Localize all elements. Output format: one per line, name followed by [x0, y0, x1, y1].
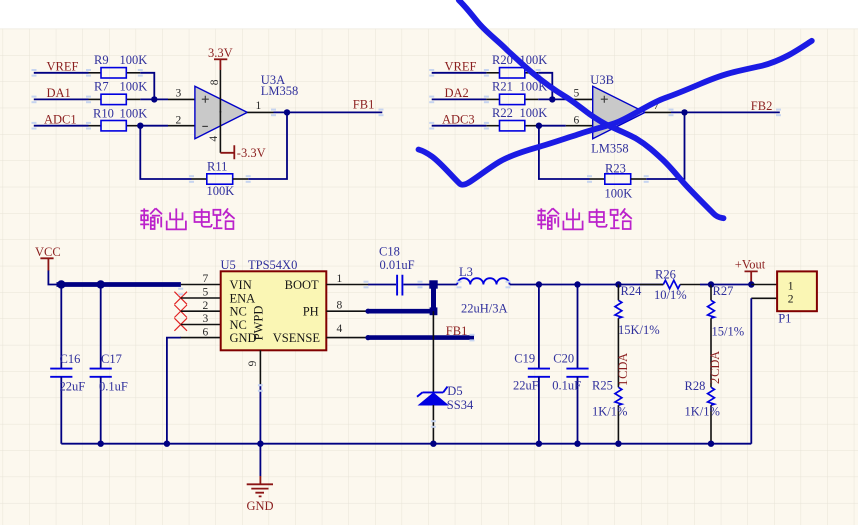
capacitor C16 — [50, 285, 85, 444]
svg-text:R10: R10 — [93, 107, 114, 121]
svg-text:P1: P1 — [778, 312, 791, 326]
junction C19 top — [536, 281, 542, 287]
svg-text:22uF: 22uF — [513, 379, 539, 393]
wire R7 to pin3 — [140, 98, 195, 100]
net label FB1 (thick wire) — [446, 324, 468, 338]
svg-text:22uF: 22uF — [60, 379, 86, 393]
svg-text:1K/1%: 1K/1% — [592, 405, 627, 419]
wire R26 to R27 node — [700, 284, 711, 286]
pin number 4 (rotated) — [208, 136, 220, 142]
svg-text:U5: U5 — [221, 258, 236, 272]
resistor R24 — [615, 284, 660, 337]
capacitor C18 — [379, 244, 415, 295]
pin number 6 — [574, 115, 580, 127]
no-connect X pin3 — [174, 318, 187, 331]
junction C19 bottom — [536, 441, 542, 447]
power +3.3V — [208, 46, 233, 70]
wire R10 to pin2 — [140, 125, 195, 127]
svg-text:R28: R28 — [685, 379, 706, 393]
wire PH node to D5 — [432, 311, 434, 392]
svg-text:1: 1 — [337, 273, 343, 285]
junction output node right — [681, 109, 687, 115]
resistor R9 — [89, 53, 148, 78]
svg-text:A: A — [708, 351, 722, 360]
wire feedback right — [233, 112, 287, 179]
wire VREF stub right — [432, 72, 487, 74]
svg-text:1: 1 — [256, 100, 262, 112]
pin number 5 — [574, 87, 580, 99]
svg-text:10/1%: 10/1% — [654, 288, 687, 302]
svg-text:C: C — [708, 369, 722, 377]
wire pin 4 — [219, 111, 221, 153]
svg-text:100K: 100K — [120, 53, 148, 67]
wire pin 8 — [219, 70, 221, 113]
wire pin5 lead — [181, 297, 221, 299]
pin number 2 — [203, 300, 209, 312]
svg-text:FB2: FB2 — [751, 99, 773, 113]
svg-text:PH: PH — [303, 305, 319, 319]
pin name ENA — [230, 291, 256, 305]
wire D5 to ground rail — [432, 405, 434, 444]
svg-text:SS34: SS34 — [447, 398, 474, 412]
junction R28 bottom — [708, 441, 714, 447]
svg-text:ADC3: ADC3 — [442, 113, 475, 127]
svg-text:DA2: DA2 — [445, 86, 469, 100]
svg-text:C20: C20 — [553, 351, 574, 365]
wire feedback left — [140, 126, 207, 179]
junction C20 top — [574, 281, 580, 287]
wire pin7 lead — [181, 284, 221, 286]
svg-text:VIN: VIN — [230, 278, 252, 292]
no-connect X pin5 — [174, 292, 187, 305]
resistor R26 — [640, 268, 700, 302]
svg-text:100K: 100K — [120, 80, 148, 94]
svg-text:100K: 100K — [120, 107, 148, 121]
junction pin6 drop — [164, 441, 170, 447]
wire output pin 7 — [645, 111, 780, 113]
svg-text:PWPD: PWPD — [252, 306, 266, 341]
svg-text:NC: NC — [230, 305, 247, 319]
svg-text:2: 2 — [788, 293, 794, 305]
node ADC3 — [442, 113, 475, 127]
svg-text:ADC1: ADC1 — [44, 113, 77, 127]
resistor R21 — [486, 80, 547, 105]
svg-text:R11: R11 — [207, 160, 227, 174]
svg-text:3.3V: 3.3V — [208, 46, 233, 60]
wire C18 to PH node — [404, 284, 432, 286]
svg-text:DA1: DA1 — [47, 86, 71, 100]
svg-text:FB1: FB1 — [353, 98, 375, 112]
svg-text:R24: R24 — [621, 284, 643, 298]
power VCC — [35, 245, 61, 271]
wire pin3 lead — [181, 324, 221, 326]
wire ADC3 stub — [432, 125, 487, 127]
wire R20 to node C — [538, 73, 552, 100]
hotspot marks — [32, 69, 782, 428]
svg-text:NC: NC — [230, 318, 247, 332]
svg-text:C17: C17 — [101, 352, 122, 366]
svg-text:C19: C19 — [514, 351, 535, 365]
wire R22 to pin6 — [539, 125, 593, 127]
wire PH node thick vertical — [430, 283, 438, 315]
node DA2 — [445, 86, 469, 100]
IC U5 TPS54X0 body — [221, 258, 327, 350]
wire R24 to R25 — [617, 318, 619, 387]
junction node B — [137, 123, 143, 129]
svg-text:GND: GND — [247, 499, 274, 513]
svg-text:A: A — [616, 353, 630, 362]
capacitor C17 — [90, 285, 128, 444]
wire ADC1 stub — [34, 125, 89, 127]
wire DA1 stub — [34, 98, 89, 100]
svg-text:-3.3V: -3.3V — [237, 146, 266, 160]
pin name GND — [230, 331, 257, 345]
wire feedback right (R23) — [631, 112, 685, 179]
svg-text:U3B: U3B — [590, 73, 614, 87]
junction C17 top — [97, 280, 105, 288]
junction PH node top — [429, 280, 437, 288]
node VREF (left) — [47, 60, 79, 74]
node VREF (right) — [445, 60, 477, 74]
resistor R11 — [207, 160, 235, 198]
pin number 2 — [176, 115, 182, 127]
svg-text:R27: R27 — [713, 284, 734, 298]
capacitor C19 — [513, 285, 550, 444]
wire VREF stub — [34, 72, 89, 74]
junction pin9 / ground rail — [257, 441, 263, 447]
title 输出电路 (left) — [140, 208, 234, 229]
svg-text:1: 1 — [616, 380, 630, 386]
pin number 7 — [654, 100, 660, 112]
net label ADC2 (rotated) — [708, 351, 722, 384]
svg-text:C18: C18 — [379, 244, 400, 258]
svg-text:2: 2 — [203, 300, 209, 312]
svg-text:D5: D5 — [447, 384, 462, 398]
wire ground stem — [259, 444, 261, 477]
svg-text:6: 6 — [203, 326, 209, 338]
svg-text:15/1%: 15/1% — [712, 324, 745, 338]
pin number 3 — [176, 87, 182, 99]
pin number 3 — [203, 313, 209, 325]
wire output rail — [510, 284, 664, 286]
svg-text:TPS54X0: TPS54X0 — [248, 258, 297, 272]
svg-text:1: 1 — [788, 280, 794, 292]
pin number 8 — [337, 299, 343, 311]
junction node A — [151, 96, 157, 102]
no-connect X pin2 — [174, 305, 187, 318]
pin number 4 — [337, 323, 343, 335]
svg-text:15K/1%: 15K/1% — [618, 323, 660, 337]
net label ADC1 (rotated) — [616, 353, 630, 386]
pin number 1 — [337, 273, 343, 285]
svg-text:D: D — [616, 362, 630, 371]
svg-text:ENA: ENA — [230, 291, 256, 305]
net label FB1 — [353, 98, 375, 112]
svg-text:0.01uF: 0.01uF — [380, 258, 415, 272]
svg-text:FB1: FB1 — [446, 324, 468, 338]
svg-text:VSENSE: VSENSE — [273, 331, 321, 345]
svg-text:LM358: LM358 — [261, 84, 299, 98]
svg-text:L3: L3 — [459, 265, 473, 279]
pin name NC (2) — [230, 305, 247, 319]
junction R24 top — [615, 281, 621, 287]
freehand scribble stroke B — [419, 41, 812, 185]
svg-text:+Vout: +Vout — [735, 257, 766, 271]
svg-text:VREF: VREF — [445, 60, 477, 74]
wire DA2 stub — [432, 98, 487, 100]
junction node D — [536, 123, 542, 129]
resistor R27 — [708, 284, 745, 338]
resistor R22 — [486, 106, 547, 131]
svg-text:R23: R23 — [605, 161, 626, 175]
svg-text:3: 3 — [176, 87, 182, 99]
inductor L3 — [457, 265, 509, 316]
svg-text:0.1uF: 0.1uF — [99, 379, 128, 393]
wire pin6 (GND) lead — [167, 338, 221, 444]
wire R27 to R28 — [710, 318, 712, 387]
wire output pin 1 — [247, 111, 382, 113]
svg-text:BOOT: BOOT — [285, 278, 319, 292]
svg-text:LM358: LM358 — [591, 142, 629, 156]
svg-text:22uH/3A: 22uH/3A — [461, 302, 508, 316]
op-amp U3A — [195, 73, 298, 139]
diode D5 SS34 — [417, 384, 474, 412]
junction node C — [549, 96, 555, 102]
svg-text:R9: R9 — [94, 53, 109, 67]
pin number 8 (rotated) — [209, 79, 221, 85]
node DA1 — [47, 86, 71, 100]
svg-text:R22: R22 — [492, 106, 513, 120]
svg-text:0.1uF: 0.1uF — [552, 379, 581, 393]
junction R25 bottom — [615, 441, 621, 447]
svg-text:100K: 100K — [207, 184, 235, 198]
power -3.3V — [220, 145, 265, 160]
wire R9 to node A — [140, 73, 154, 100]
svg-text:3: 3 — [203, 313, 209, 325]
wire PH node to L3 — [435, 284, 457, 286]
pin name NC (3) — [230, 318, 247, 332]
connector P1 — [777, 271, 817, 325]
pin number 5 — [203, 287, 209, 299]
wire VSENSE pin4 — [326, 335, 474, 340]
svg-text:100K: 100K — [520, 106, 548, 120]
pin name PWPD (rotated) — [252, 306, 266, 341]
junction C17 bottom — [98, 441, 104, 447]
svg-text:4: 4 — [337, 323, 343, 335]
resistor R28 — [685, 379, 720, 444]
ground GND symbol — [247, 476, 274, 513]
wire pin9 — [259, 350, 261, 443]
svg-text:2: 2 — [708, 378, 722, 384]
svg-text:R7: R7 — [94, 80, 109, 94]
svg-text:7: 7 — [203, 273, 209, 285]
svg-text:R26: R26 — [655, 268, 676, 282]
pin name VSENSE — [273, 331, 321, 345]
pin number 6 — [203, 326, 209, 338]
svg-text:1K/1%: 1K/1% — [685, 405, 720, 419]
junction output node — [284, 109, 290, 115]
junction C20 bottom — [574, 441, 580, 447]
svg-text:6: 6 — [574, 115, 580, 127]
svg-text:R21: R21 — [492, 80, 513, 94]
svg-text:C16: C16 — [60, 352, 81, 366]
net label FB2 — [751, 99, 773, 113]
svg-text:8: 8 — [209, 79, 221, 85]
pin number 7 — [203, 273, 209, 285]
svg-text:D: D — [708, 360, 722, 369]
wire BOOT pin1 — [326, 284, 396, 286]
ground rail (bottom) — [61, 443, 751, 445]
resistor R20 — [486, 53, 547, 78]
svg-text:4: 4 — [208, 136, 220, 142]
svg-text:9: 9 — [247, 360, 259, 366]
svg-text:100K: 100K — [605, 186, 633, 200]
resistor R25 — [592, 379, 627, 444]
pin name VIN — [230, 278, 252, 292]
junction R27 top — [708, 281, 714, 287]
resistor R23 — [605, 161, 633, 200]
svg-text:VCC: VCC — [35, 245, 61, 259]
freehand scribble stroke A — [459, 0, 724, 218]
junction D5 bottom — [430, 441, 436, 447]
wire pin2 lead — [181, 310, 221, 312]
capacitor C20 — [552, 285, 588, 444]
resistor R10 — [89, 107, 148, 131]
wire VCC drop — [48, 271, 57, 285]
pin number 9 (rotated) — [247, 360, 259, 366]
wire P1 pin2 — [751, 298, 777, 443]
node ADC1 — [44, 113, 77, 127]
wire R21 to pin5 — [538, 98, 593, 100]
junction +Vout — [748, 281, 754, 287]
op-amp U3B — [590, 73, 645, 155]
wire to P1 pin1 — [711, 284, 777, 286]
svg-text:C: C — [616, 371, 630, 379]
svg-text:5: 5 — [203, 287, 209, 299]
pin number 1 — [256, 100, 262, 112]
wire PH pin8 — [326, 309, 433, 314]
junction C16 top — [57, 280, 65, 288]
wire VCC thick rail — [57, 282, 181, 287]
svg-text:5: 5 — [574, 87, 580, 99]
pin name PH — [303, 305, 319, 319]
svg-text:VREF: VREF — [47, 60, 79, 74]
power +Vout — [735, 257, 766, 283]
title 输出电路 (right) — [537, 208, 631, 229]
svg-text:2: 2 — [176, 115, 182, 127]
svg-text:8: 8 — [337, 299, 343, 311]
resistor R7 — [89, 80, 148, 105]
wire feedback left (R23) — [539, 126, 605, 179]
pin name BOOT — [285, 278, 319, 292]
svg-text:R25: R25 — [592, 379, 613, 393]
